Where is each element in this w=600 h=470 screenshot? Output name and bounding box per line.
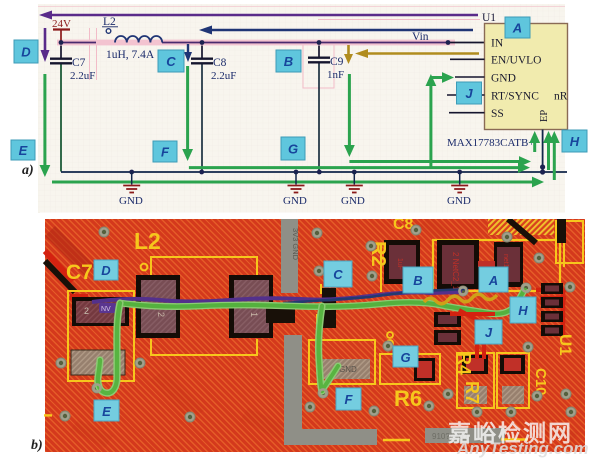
pin stubs xyxy=(447,59,485,112)
navy down arrow at C xyxy=(184,44,192,62)
gray L pour bottom left xyxy=(284,335,377,445)
svg-text:J: J xyxy=(485,325,493,340)
svg-text:D: D xyxy=(101,263,111,278)
24V power symbol xyxy=(52,18,71,42)
pin stub IN xyxy=(450,42,485,44)
node H xyxy=(562,130,587,152)
watermark xyxy=(448,414,573,448)
R4 pads xyxy=(462,355,488,404)
svg-text:E: E xyxy=(102,404,111,419)
green arrow E xyxy=(43,74,46,167)
capacitor C9 xyxy=(308,46,344,173)
texture patches xyxy=(70,216,578,448)
olive EN arrow horizontal xyxy=(355,49,479,58)
green arrow G vertical xyxy=(348,74,351,147)
svg-text:C7: C7 xyxy=(66,261,93,284)
node B pcb xyxy=(403,267,433,293)
green GND-pin arrow horizontal xyxy=(431,76,442,79)
L2 pad 2 xyxy=(229,275,273,338)
svg-text:R6: R6 xyxy=(394,386,422,411)
green line B to EP xyxy=(189,166,520,169)
ground symbol 3 xyxy=(341,172,365,207)
pad A xyxy=(494,242,523,287)
silk L2 bottom line xyxy=(151,339,257,355)
red link NetC2 to A pad xyxy=(478,261,495,267)
yellow stub above C8 rect xyxy=(316,314,318,340)
clip strip above pcb xyxy=(40,213,600,220)
node E pcb xyxy=(94,400,119,421)
IC U1 body xyxy=(485,24,568,130)
green main trace glow xyxy=(119,288,525,314)
black vertical bar right xyxy=(557,219,566,243)
silk C7 outline xyxy=(68,291,134,381)
yellow pour top right xyxy=(488,219,554,235)
svg-text:2: 2 xyxy=(156,312,166,317)
pin labels xyxy=(491,38,568,123)
pad in mid rect xyxy=(414,358,435,381)
C7 pad top xyxy=(72,297,129,326)
green bottom line xyxy=(52,181,533,184)
green EP arrows xyxy=(533,141,536,152)
node D pcb xyxy=(94,260,118,280)
C8 gray pad xyxy=(317,359,370,379)
silk corner footprint C6 xyxy=(556,221,583,263)
GND bus (navy) xyxy=(61,171,567,173)
pad B xyxy=(384,240,420,284)
pink highlighted Vin rail xyxy=(57,40,455,46)
C7 net label chip xyxy=(99,303,116,313)
node J pcb xyxy=(475,320,502,344)
purple trace xyxy=(92,292,462,302)
gray 3V3 bar top xyxy=(281,219,300,293)
red steps right edge xyxy=(536,288,566,337)
svg-text:R7: R7 xyxy=(462,381,482,404)
svg-text:U1: U1 xyxy=(556,334,575,356)
silk L2 pin1 circle xyxy=(141,264,148,271)
wire navy arrow (B path) xyxy=(199,26,473,35)
vias xyxy=(56,225,576,422)
L2 pad 1 xyxy=(136,275,180,338)
svg-text:R4: R4 xyxy=(454,352,474,375)
node J xyxy=(457,82,482,104)
svg-text:2: 2 xyxy=(84,306,89,316)
red trace J area xyxy=(450,310,497,359)
node E xyxy=(11,140,35,160)
red input trace diagonal xyxy=(45,251,73,281)
ground symbol 2 xyxy=(283,172,307,207)
C10 pads xyxy=(500,355,525,404)
node D xyxy=(14,40,38,63)
silk corner left of B pad xyxy=(381,244,392,292)
navy trace xyxy=(283,289,468,303)
black arm from L2 pad2 xyxy=(266,307,295,323)
silk small rect mid xyxy=(380,354,440,384)
node B xyxy=(276,50,301,72)
node F pcb xyxy=(336,388,361,410)
gray bottom bar with text xyxy=(425,428,505,443)
olive down arrow xyxy=(344,45,353,64)
wire Vin rail xyxy=(61,42,450,44)
ground symbol 1 xyxy=(119,172,143,207)
pink guide lines xyxy=(38,7,565,89)
yellow squiggle trace xyxy=(424,294,497,304)
yellow dashes bottom xyxy=(44,415,528,440)
svg-text:B: B xyxy=(413,273,422,288)
svg-text:NV: NV xyxy=(101,306,111,313)
green descender F glow xyxy=(319,306,322,391)
svg-text:1: 1 xyxy=(249,312,259,317)
black diagonal trace top right xyxy=(508,219,536,243)
black input trace diagonal xyxy=(45,261,75,292)
node C xyxy=(158,50,184,72)
green main trace xyxy=(119,288,525,314)
node H pcb xyxy=(510,297,536,323)
silk footprint C10fp xyxy=(497,353,529,408)
capacitor C8 xyxy=(191,46,236,173)
node G xyxy=(281,137,305,160)
pad mid (NetC2) xyxy=(437,240,479,291)
node A xyxy=(505,17,530,38)
green descender E xyxy=(98,303,120,393)
capacitor C7 xyxy=(50,46,95,83)
node F xyxy=(153,141,177,162)
svg-text:H: H xyxy=(518,303,528,318)
svg-text:F: F xyxy=(345,392,354,407)
svg-text:b): b) xyxy=(31,438,43,453)
cyan PCB labels xyxy=(94,260,536,421)
svg-text:A: A xyxy=(488,273,498,288)
via rings atop traces xyxy=(93,284,529,396)
dark red patch top-left xyxy=(45,226,95,276)
J column pads xyxy=(434,312,461,345)
green descender F xyxy=(319,306,322,391)
svg-text:net1: net1 xyxy=(502,254,509,268)
right pin column pads xyxy=(541,283,563,336)
node A pcb xyxy=(479,267,508,292)
green line A to EP xyxy=(349,160,521,163)
green arrow C xyxy=(186,66,189,151)
EP lead navy xyxy=(542,130,544,173)
silk C8/GND-pad outline xyxy=(309,340,375,384)
svg-text:C: C xyxy=(333,267,343,282)
node G pcb xyxy=(393,346,418,367)
silk L2 top bracket xyxy=(151,257,257,276)
silk rings above G footprint xyxy=(387,332,393,338)
svg-text:3V3 GND: 3V3 GND xyxy=(291,228,300,261)
silk footprint R4 xyxy=(457,353,494,408)
svg-text:L2: L2 xyxy=(134,228,161,254)
inductor L2 xyxy=(102,16,162,61)
PCB photo background xyxy=(45,219,585,452)
svg-text:1uF: 1uF xyxy=(396,258,403,270)
ground symbol 4 xyxy=(447,172,471,207)
R2 pad xyxy=(322,288,336,328)
C7 ground lead (dark green) xyxy=(60,65,62,172)
svg-text:GND: GND xyxy=(339,365,357,374)
svg-text:2 NetC2_1: 2 NetC2_1 xyxy=(451,252,460,291)
red stub into C7 pad xyxy=(70,294,88,300)
wire purple top feedback (U1 to D) xyxy=(39,11,478,20)
svg-text:G: G xyxy=(400,350,410,365)
green GND-pin arrow vertical xyxy=(429,84,432,168)
silk big top-right outline xyxy=(433,240,560,291)
schematic sheet xyxy=(0,0,600,219)
C7 pad bottom xyxy=(71,350,125,375)
cyan label boxes xyxy=(11,17,587,162)
wire purple down arrow at D xyxy=(41,28,50,62)
junction dots xyxy=(59,40,546,175)
node C pcb xyxy=(324,261,352,287)
green descender E glow xyxy=(98,303,120,393)
